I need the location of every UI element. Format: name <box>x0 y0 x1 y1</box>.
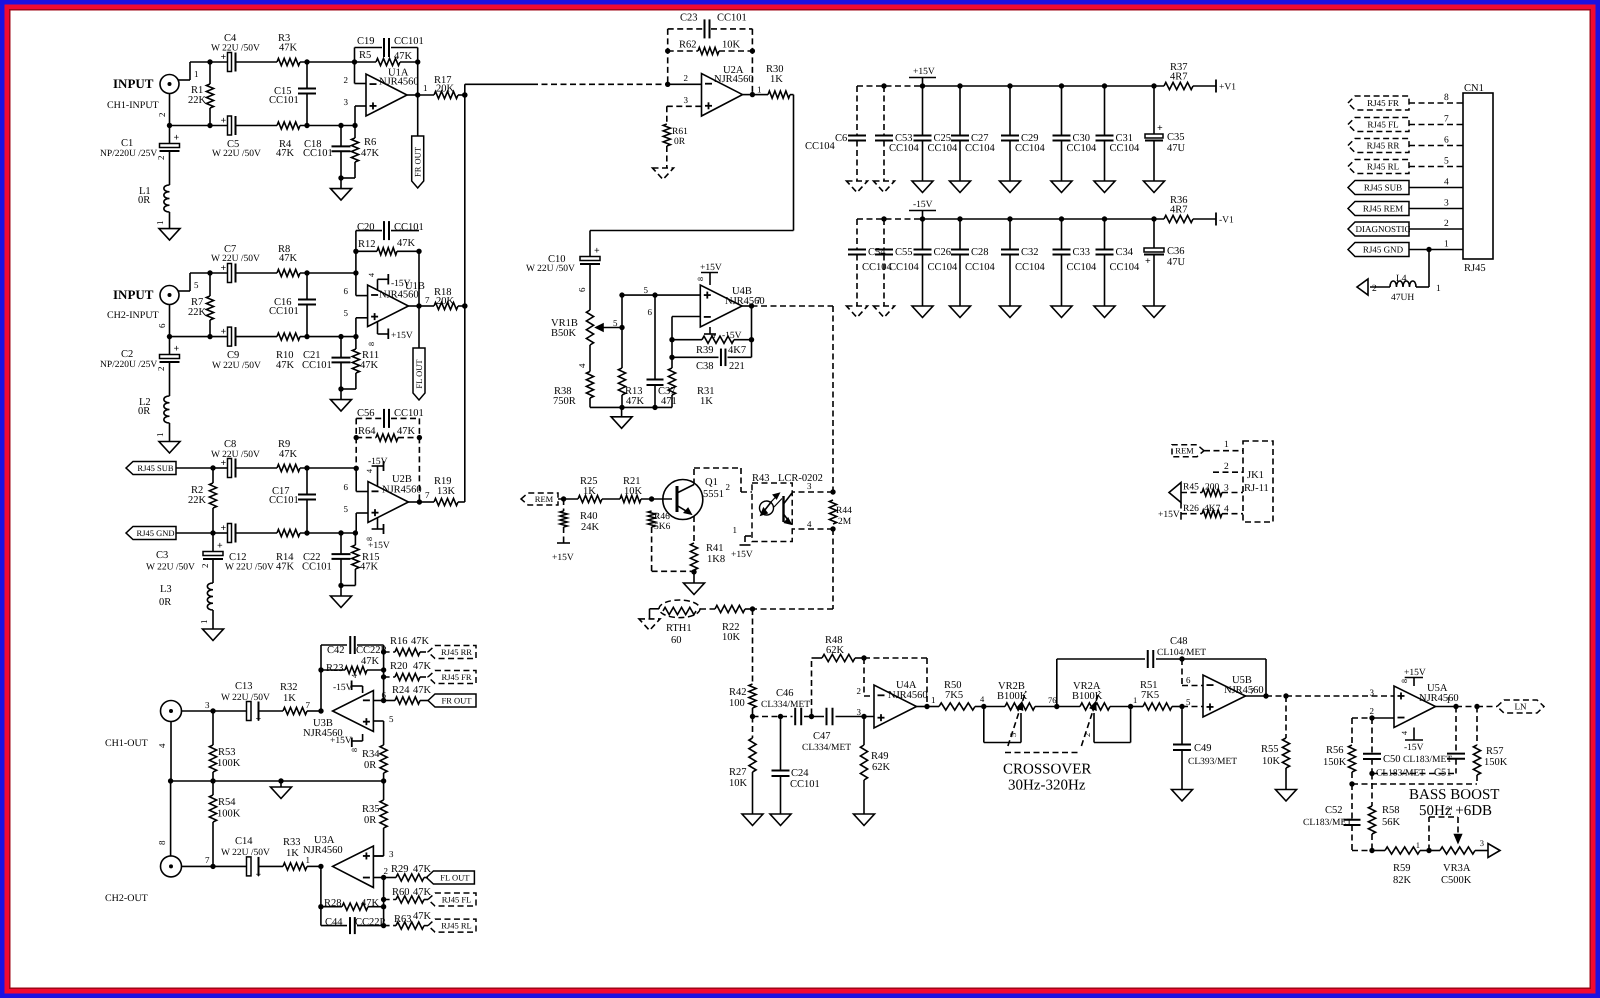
svg-text:C23: C23 <box>680 12 698 23</box>
svg-text:C4: C4 <box>224 33 237 44</box>
svg-text:Q1: Q1 <box>705 477 718 488</box>
svg-text:4R7: 4R7 <box>1170 205 1188 216</box>
svg-text:221: 221 <box>729 361 745 372</box>
svg-text:150K: 150K <box>1484 757 1508 768</box>
svg-text:RJ45 RL: RJ45 RL <box>441 921 471 931</box>
svg-text:1: 1 <box>155 433 165 438</box>
svg-text:C47: C47 <box>813 731 831 742</box>
svg-text:L3: L3 <box>160 584 172 595</box>
svg-text:W 22U /50V: W 22U /50V <box>225 563 274 573</box>
svg-text:R12: R12 <box>358 239 376 250</box>
svg-text:R24: R24 <box>392 685 410 696</box>
svg-text:47U: 47U <box>1167 257 1186 268</box>
svg-text:6: 6 <box>648 307 653 317</box>
svg-text:1: 1 <box>1446 695 1451 705</box>
svg-text:CL104/MET: CL104/MET <box>1157 648 1206 658</box>
svg-text:RJ45: RJ45 <box>1464 263 1486 274</box>
svg-text:+15V: +15V <box>330 736 352 746</box>
svg-text:62K: 62K <box>872 762 891 773</box>
svg-text:7: 7 <box>1250 686 1255 696</box>
svg-text:47K: 47K <box>361 898 380 909</box>
svg-text:C14: C14 <box>235 836 253 847</box>
svg-text:82K: 82K <box>1393 875 1412 886</box>
svg-text:NP/220U /25V: NP/220U /25V <box>100 149 157 159</box>
svg-text:CC104: CC104 <box>1015 262 1046 273</box>
svg-text:150K: 150K <box>1323 757 1347 768</box>
svg-text:C44: C44 <box>325 917 343 928</box>
svg-text:7: 7 <box>205 855 210 865</box>
svg-text:2M: 2M <box>838 517 852 527</box>
svg-text:CC104: CC104 <box>1015 143 1046 154</box>
svg-text:6: 6 <box>382 690 387 700</box>
svg-text:CC104: CC104 <box>1110 143 1141 154</box>
svg-text:47U: 47U <box>1167 143 1186 154</box>
svg-text:R62: R62 <box>679 40 697 51</box>
svg-text:CC22P: CC22P <box>355 917 386 928</box>
svg-text:W 22U /50V: W 22U /50V <box>212 149 261 159</box>
svg-text:3: 3 <box>857 707 862 717</box>
svg-text:2: 2 <box>1444 219 1449 229</box>
svg-text:NJR4560: NJR4560 <box>888 690 928 701</box>
svg-text:C35: C35 <box>1167 132 1185 143</box>
svg-text:NJR4560: NJR4560 <box>1419 693 1459 704</box>
svg-text:4: 4 <box>1224 505 1229 515</box>
svg-text:CH2-INPUT: CH2-INPUT <box>107 310 159 321</box>
svg-text:NJR4560: NJR4560 <box>382 485 422 496</box>
svg-text:60: 60 <box>671 635 682 646</box>
svg-text:1: 1 <box>1444 240 1449 250</box>
svg-text:R40: R40 <box>580 511 598 522</box>
svg-text:6: 6 <box>157 323 167 328</box>
svg-text:C19: C19 <box>357 36 375 47</box>
svg-text:RJ45 SUB: RJ45 SUB <box>137 463 173 473</box>
svg-text:2: 2 <box>157 113 167 118</box>
svg-text:1: 1 <box>306 855 311 865</box>
svg-text:R59: R59 <box>1393 863 1411 874</box>
svg-text:4: 4 <box>1444 178 1449 188</box>
svg-text:R16: R16 <box>390 636 408 647</box>
svg-text:47K: 47K <box>413 887 432 898</box>
svg-text:10K: 10K <box>1262 756 1281 767</box>
svg-text:RJ45 FR: RJ45 FR <box>442 672 472 682</box>
svg-text:2: 2 <box>684 73 689 83</box>
svg-text:1: 1 <box>733 525 738 535</box>
svg-text:+15V: +15V <box>391 331 413 341</box>
svg-text:4K7: 4K7 <box>728 345 746 356</box>
svg-text:RJ45 SUB: RJ45 SUB <box>1364 183 1402 193</box>
svg-text:50Hz +6DB: 50Hz +6DB <box>1419 803 1492 819</box>
svg-text:-15V: -15V <box>913 200 933 210</box>
svg-text:CL393/MET: CL393/MET <box>1188 757 1237 767</box>
svg-text:10K: 10K <box>624 486 643 497</box>
svg-text:8: 8 <box>1444 93 1449 103</box>
svg-text:4: 4 <box>1400 731 1409 735</box>
svg-text:CC104: CC104 <box>928 262 959 273</box>
svg-text:W 22U /50V: W 22U /50V <box>212 361 261 371</box>
svg-text:C9: C9 <box>227 350 239 361</box>
svg-text:REM: REM <box>535 494 554 504</box>
svg-text:7: 7 <box>425 295 430 305</box>
svg-text:+: + <box>221 327 227 338</box>
svg-text:RJ45 RR: RJ45 RR <box>1367 141 1400 151</box>
svg-text:RJ45 FL: RJ45 FL <box>442 895 472 905</box>
svg-text:CH1-INPUT: CH1-INPUT <box>107 100 159 111</box>
svg-text:5: 5 <box>644 285 649 295</box>
svg-text:0R: 0R <box>364 815 376 826</box>
svg-text:CC101: CC101 <box>269 306 299 317</box>
svg-text:W 22U /50V: W 22U /50V <box>211 254 260 264</box>
svg-text:R56: R56 <box>1326 745 1344 756</box>
svg-text:INPUT: INPUT <box>113 76 154 91</box>
svg-text:R63: R63 <box>394 914 412 925</box>
svg-text:4K7: 4K7 <box>1204 504 1221 514</box>
svg-text:3: 3 <box>205 700 210 710</box>
svg-text:LN: LN <box>1515 702 1527 712</box>
svg-text:47K: 47K <box>413 911 432 922</box>
svg-text:2: 2 <box>857 686 862 696</box>
svg-text:2: 2 <box>1370 706 1375 716</box>
svg-text:W 22U /50V: W 22U /50V <box>211 450 260 460</box>
svg-text:RJ45 RL: RJ45 RL <box>1367 162 1399 172</box>
svg-text:5: 5 <box>1186 697 1191 707</box>
svg-text:CH1-OUT: CH1-OUT <box>105 738 148 749</box>
svg-text:R53: R53 <box>218 747 236 758</box>
svg-text:C8: C8 <box>224 439 236 450</box>
svg-text:R23: R23 <box>326 663 344 674</box>
svg-text:20K: 20K <box>436 84 455 95</box>
svg-text:3: 3 <box>1480 838 1484 848</box>
svg-text:C13: C13 <box>235 681 253 692</box>
svg-text:3: 3 <box>389 849 394 859</box>
svg-text:C33: C33 <box>1073 247 1091 258</box>
svg-text:6: 6 <box>344 482 349 492</box>
svg-text:5551: 5551 <box>703 489 724 500</box>
svg-text:47K: 47K <box>360 360 379 371</box>
svg-text:10K: 10K <box>722 40 741 51</box>
svg-text:DIAGNOSTIC: DIAGNOSTIC <box>1356 224 1411 234</box>
svg-text:0R: 0R <box>159 597 171 608</box>
svg-text:+: + <box>221 52 227 63</box>
svg-text:5: 5 <box>1444 157 1449 167</box>
svg-text:C46: C46 <box>776 688 794 699</box>
svg-text:FL OUT: FL OUT <box>440 873 470 883</box>
svg-text:8: 8 <box>157 840 167 845</box>
svg-text:47UH: 47UH <box>1391 293 1414 303</box>
svg-text:CC104: CC104 <box>889 262 920 273</box>
svg-text:CC101: CC101 <box>394 408 424 419</box>
svg-text:CC104: CC104 <box>805 141 836 152</box>
svg-text:CL183/MET: CL183/MET <box>1376 769 1425 779</box>
svg-text:FL OUT: FL OUT <box>414 359 424 389</box>
svg-text:NP/220U /25V: NP/220U /25V <box>100 360 157 370</box>
svg-text:24K: 24K <box>581 522 600 533</box>
svg-text:RJ45 FL: RJ45 FL <box>1367 120 1398 130</box>
svg-text:CC104: CC104 <box>889 143 920 154</box>
svg-text:47K: 47K <box>413 864 432 875</box>
svg-text:CROSSOVER: CROSSOVER <box>1003 762 1091 778</box>
svg-text:C36: C36 <box>1167 246 1185 257</box>
svg-text:CC101: CC101 <box>790 779 820 790</box>
svg-text:47K: 47K <box>360 562 379 573</box>
svg-text:U2B: U2B <box>392 474 412 485</box>
svg-text:2: 2 <box>384 866 389 876</box>
svg-text:100K: 100K <box>217 758 241 769</box>
svg-text:BASS BOOST: BASS BOOST <box>1409 787 1499 803</box>
svg-text:C34: C34 <box>1116 247 1134 258</box>
svg-text:47K: 47K <box>394 51 413 62</box>
svg-text:+: + <box>1145 256 1151 267</box>
svg-text:4: 4 <box>577 363 587 368</box>
svg-text:4: 4 <box>807 519 812 529</box>
svg-text:1: 1 <box>1224 440 1229 450</box>
svg-text:1: 1 <box>1436 284 1441 294</box>
svg-text:R41: R41 <box>706 543 724 554</box>
svg-text:C42: C42 <box>327 645 345 656</box>
svg-text:+: + <box>1157 123 1163 134</box>
svg-text:0R: 0R <box>138 195 150 206</box>
svg-text:C6: C6 <box>835 133 847 144</box>
svg-text:FR OUT: FR OUT <box>413 146 423 177</box>
svg-text:R54: R54 <box>218 797 236 808</box>
svg-text:CC104: CC104 <box>1110 262 1141 273</box>
svg-text:2: 2 <box>1372 284 1377 294</box>
svg-text:C28: C28 <box>971 247 989 258</box>
svg-text:8: 8 <box>1400 679 1409 683</box>
svg-text:0R: 0R <box>138 406 150 417</box>
svg-text:3: 3 <box>684 95 689 105</box>
svg-text:47K: 47K <box>279 253 298 264</box>
svg-text:2: 2 <box>344 75 349 85</box>
svg-text:+: + <box>256 869 262 880</box>
svg-text:4R7: 4R7 <box>1170 72 1188 83</box>
svg-text:RJ45 REM: RJ45 REM <box>1363 204 1403 214</box>
svg-text:47K: 47K <box>276 360 295 371</box>
svg-text:8: 8 <box>696 277 705 281</box>
svg-text:47K: 47K <box>279 449 298 460</box>
svg-text:RJ45 GND: RJ45 GND <box>1363 245 1404 255</box>
svg-text:2: 2 <box>156 156 166 161</box>
svg-text:+15V: +15V <box>552 553 574 563</box>
svg-text:-V1: -V1 <box>1219 216 1234 226</box>
svg-text:47K: 47K <box>413 685 432 696</box>
svg-text:R49: R49 <box>871 751 889 762</box>
svg-text:R55: R55 <box>1261 744 1279 755</box>
svg-text:7K5: 7K5 <box>945 690 963 701</box>
svg-text:2: 2 <box>200 564 210 569</box>
svg-text:47K: 47K <box>361 656 380 667</box>
svg-text:7: 7 <box>306 700 311 710</box>
svg-text:JK1: JK1 <box>1247 470 1264 481</box>
svg-text:-15V: -15V <box>333 683 353 693</box>
svg-text:+15V: +15V <box>1158 510 1180 520</box>
svg-text:10K: 10K <box>722 632 741 643</box>
svg-text:1: 1 <box>931 695 936 705</box>
svg-text:INPUT: INPUT <box>113 287 154 302</box>
svg-text:1K: 1K <box>770 74 783 85</box>
svg-text:2: 2 <box>156 367 166 372</box>
svg-text:+: + <box>174 344 180 355</box>
svg-text:CC101: CC101 <box>303 148 333 159</box>
svg-text:C500K: C500K <box>1441 875 1472 886</box>
svg-text:R57: R57 <box>1486 746 1504 757</box>
svg-text:B100K: B100K <box>997 691 1028 702</box>
svg-text:R43: R43 <box>752 473 770 484</box>
svg-text:+: + <box>221 116 227 127</box>
svg-text:7: 7 <box>1444 115 1449 125</box>
svg-text:R6: R6 <box>364 137 376 148</box>
svg-text:CC104: CC104 <box>928 143 959 154</box>
svg-text:6: 6 <box>344 286 349 296</box>
svg-text:CH2-OUT: CH2-OUT <box>105 893 148 904</box>
svg-text:R39: R39 <box>696 345 714 356</box>
svg-text:CL183/MET: CL183/MET <box>1403 755 1452 765</box>
svg-text:+: + <box>174 133 180 144</box>
svg-text:2: 2 <box>1224 462 1229 472</box>
svg-text:22K: 22K <box>188 307 207 318</box>
svg-text:R26: R26 <box>1183 504 1199 514</box>
svg-text:22K: 22K <box>188 495 207 506</box>
svg-text:NJR4560: NJR4560 <box>379 77 419 88</box>
svg-text:B100K: B100K <box>1072 691 1103 702</box>
svg-text:CC101: CC101 <box>302 562 332 573</box>
svg-text:+: + <box>221 263 227 274</box>
svg-text:47K: 47K <box>413 661 432 672</box>
svg-text:+15V: +15V <box>1404 668 1426 678</box>
svg-text:C50: C50 <box>1383 754 1401 765</box>
svg-text:1: 1 <box>155 221 165 226</box>
svg-text:C2: C2 <box>121 349 133 360</box>
svg-text:47K: 47K <box>397 426 416 437</box>
svg-text:C56: C56 <box>357 408 375 419</box>
svg-text:R20: R20 <box>390 661 408 672</box>
svg-text:5: 5 <box>389 714 394 724</box>
svg-text:0R: 0R <box>674 137 686 147</box>
svg-text:R5: R5 <box>359 50 371 61</box>
svg-text:R42: R42 <box>729 687 747 698</box>
svg-text:3: 3 <box>807 481 812 491</box>
svg-text:+: + <box>594 246 600 257</box>
svg-text:C55: C55 <box>895 247 913 258</box>
svg-text:750R: 750R <box>553 396 576 407</box>
svg-text:4: 4 <box>367 273 376 277</box>
svg-text:22K: 22K <box>188 95 207 106</box>
svg-text:CC101: CC101 <box>302 360 332 371</box>
svg-text:RJ45 GND: RJ45 GND <box>136 528 174 538</box>
svg-text:-15V: -15V <box>1404 743 1424 753</box>
svg-text:3: 3 <box>344 97 349 107</box>
svg-text:W 22U /50V: W 22U /50V <box>221 693 270 703</box>
svg-text:VR3A: VR3A <box>1443 863 1471 874</box>
svg-text:R44: R44 <box>836 506 852 516</box>
svg-text:RJ-11: RJ-11 <box>1244 483 1269 494</box>
svg-text:5K6: 5K6 <box>654 522 671 532</box>
svg-text:3: 3 <box>1444 199 1449 209</box>
svg-text:NJR4560: NJR4560 <box>725 296 765 307</box>
svg-text:W 22U /50V: W 22U /50V <box>526 264 575 274</box>
svg-text:1: 1 <box>1133 695 1137 705</box>
svg-text:1: 1 <box>199 620 209 625</box>
svg-text:1: 1 <box>757 85 762 95</box>
svg-text:+15V: +15V <box>700 263 722 273</box>
svg-text:C32: C32 <box>1021 247 1039 258</box>
svg-text:C51: C51 <box>1434 768 1452 779</box>
svg-text:CC101: CC101 <box>269 95 299 106</box>
svg-text:10K: 10K <box>729 778 748 789</box>
svg-text:8: 8 <box>365 537 374 541</box>
svg-text:RJ45 FR: RJ45 FR <box>1367 98 1399 108</box>
svg-text:+V1: +V1 <box>1219 83 1236 93</box>
svg-text:47K: 47K <box>411 636 430 647</box>
svg-text:1K: 1K <box>286 848 299 859</box>
svg-text:1: 1 <box>1416 840 1420 850</box>
svg-text:1K: 1K <box>283 693 296 704</box>
svg-text:2: 2 <box>1082 733 1092 737</box>
svg-text:+: + <box>221 523 227 534</box>
svg-text:RJ45 RR: RJ45 RR <box>441 647 472 657</box>
svg-text:R33: R33 <box>283 837 301 848</box>
svg-text:NJR4560: NJR4560 <box>714 74 754 85</box>
svg-text:+15V: +15V <box>368 541 390 551</box>
svg-text:CC101: CC101 <box>717 12 747 23</box>
svg-text:CL334/MET: CL334/MET <box>802 743 851 753</box>
svg-text:R64: R64 <box>358 426 376 437</box>
svg-text:4: 4 <box>365 469 374 473</box>
svg-text:C3: C3 <box>156 550 168 561</box>
svg-text:47K: 47K <box>397 238 416 249</box>
svg-text:CC104: CC104 <box>862 262 893 273</box>
svg-text:CC101: CC101 <box>394 222 424 233</box>
svg-text:CC101: CC101 <box>394 36 424 47</box>
svg-text:NJR4560: NJR4560 <box>1224 685 1264 696</box>
svg-text:8: 8 <box>367 342 376 346</box>
svg-text:13K: 13K <box>437 486 456 497</box>
svg-text:R45: R45 <box>1183 483 1199 493</box>
svg-text:6: 6 <box>1186 675 1191 685</box>
svg-text:L4: L4 <box>1396 274 1407 284</box>
svg-text:R28: R28 <box>324 898 342 909</box>
svg-text:5: 5 <box>613 318 618 328</box>
svg-text:B50K: B50K <box>551 328 577 339</box>
svg-text:RTH1: RTH1 <box>666 623 692 634</box>
svg-text:5: 5 <box>344 308 349 318</box>
svg-text:+: + <box>217 541 223 552</box>
svg-text:CC101: CC101 <box>269 495 299 506</box>
svg-text:C12: C12 <box>229 552 247 563</box>
svg-text:100: 100 <box>729 698 745 709</box>
svg-text:C48: C48 <box>1170 636 1188 647</box>
svg-text:NJR4560: NJR4560 <box>379 290 419 301</box>
svg-text:C49: C49 <box>1194 743 1212 754</box>
svg-text:NJR4560: NJR4560 <box>303 845 343 856</box>
svg-text:W 22U /50V: W 22U /50V <box>146 563 195 573</box>
svg-text:LCR-0202: LCR-0202 <box>778 473 823 484</box>
svg-text:1K8: 1K8 <box>707 554 725 565</box>
svg-text:1K: 1K <box>700 396 713 407</box>
svg-text:47K: 47K <box>361 148 380 159</box>
svg-text:1K: 1K <box>583 486 596 497</box>
svg-text:R60: R60 <box>392 887 410 898</box>
svg-text:6: 6 <box>1444 136 1449 146</box>
svg-text:20K: 20K <box>436 296 455 307</box>
svg-text:+15V: +15V <box>913 67 935 77</box>
svg-text:47K: 47K <box>626 396 645 407</box>
svg-text:R61: R61 <box>672 127 688 137</box>
svg-text:471: 471 <box>661 396 677 407</box>
svg-text:47K: 47K <box>276 562 295 573</box>
svg-text:100K: 100K <box>217 809 241 820</box>
svg-text:W 22U /50V: W 22U /50V <box>211 44 260 54</box>
svg-text:200: 200 <box>1205 483 1220 493</box>
